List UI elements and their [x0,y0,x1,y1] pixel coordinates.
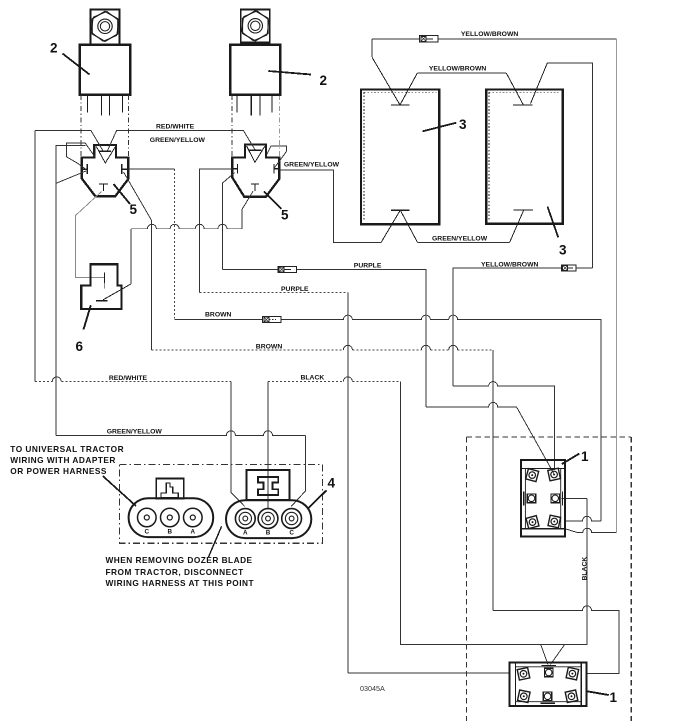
svg-text:4: 4 [328,476,336,491]
svg-text:RED/WHITE: RED/WHITE [109,375,148,382]
svg-text:WIRING WITH ADAPTER: WIRING WITH ADAPTER [10,455,116,465]
blade boundary dash-dot box [467,437,632,721]
svg-text:1: 1 [581,449,589,464]
svg-text:WHEN REMOVING DOZER BLADE: WHEN REMOVING DOZER BLADE [106,555,253,565]
lamp 1 (lower) [510,663,587,706]
dashed disconnect box [120,465,323,544]
connector 4 (tractor side, left) [129,479,214,538]
svg-text:WIRING HARNESS AT THIS POINT: WIRING HARNESS AT THIS POINT [106,578,255,588]
svg-text:B: B [266,530,271,537]
svg-text:GREEN/YELLOW: GREEN/YELLOW [284,162,340,169]
wire GREEN/YELLOW from conn5 right to actuator bottoms [279,170,509,243]
solenoid 2 (right) [230,9,280,115]
svg-text:A: A [243,530,248,537]
svg-text:6: 6 [76,339,84,354]
wire BLACK run to connector 4 and lamps [268,377,587,665]
label 3 (left actuator) [423,117,467,132]
lamp 1 (upper) [521,460,565,537]
inline connector on BROWN [263,317,282,323]
wire to item 6 from conn5 right bottom pin (with bumps) [131,191,253,283]
svg-text:BROWN: BROWN [205,311,232,318]
wire BROWN lower (diagonal from conn5 left to bottom lamp) [124,172,619,674]
connector 4 (blade side, right) [226,470,311,538]
svg-text:B: B [168,529,173,536]
svg-text:2: 2 [320,73,328,88]
svg-text:GREEN/YELLOW: GREEN/YELLOW [432,235,488,242]
actuator 3 (right) [486,63,563,243]
label 5 (right connector) [264,191,289,222]
wire YELLOW/BROWN right side run [453,63,593,470]
inline connector on YELLOW/BROWN top [420,36,439,42]
wire YELLOW/BROWN top run [372,39,616,533]
inline connector on YELLOW/BROWN right [562,265,577,271]
wire YELLOW/BROWN between actuators [417,72,506,74]
svg-text:C: C [145,529,150,536]
svg-text:RED/WHITE: RED/WHITE [156,124,195,131]
label 6 [76,305,91,354]
svg-text:YELLOW/BROWN: YELLOW/BROWN [481,262,538,269]
connector 5 (left) [82,145,128,196]
svg-text:PURPLE: PURPLE [281,286,309,293]
svg-text:YELLOW/BROWN: YELLOW/BROWN [461,31,518,38]
note: disconnect point [106,526,255,588]
wire RED/WHITE top run [35,131,255,382]
label 3 (right actuator) [548,207,568,258]
inline connector on PURPLE [278,266,297,272]
svg-text:BROWN: BROWN [256,344,283,351]
connector 5 (right) [232,145,279,197]
svg-text:2: 2 [50,41,58,56]
svg-text:GREEN/YELLOW: GREEN/YELLOW [150,137,206,144]
label 4 [308,476,336,510]
svg-text:5: 5 [130,202,138,217]
wire PURPLE lower (conn5 right left-pin to bottom lamp left) [200,169,510,673]
dash-dot guide lines under left solenoid [81,95,129,157]
wire GREEN/YELLOW lower run to connector 4 [56,431,306,507]
svg-text:A: A [191,529,196,536]
svg-text:YELLOW/BROWN: YELLOW/BROWN [429,66,486,73]
svg-text:03045A: 03045A [360,684,385,693]
note: to universal tractor wiring [10,444,136,506]
svg-text:BLACK: BLACK [301,374,325,381]
wire BROWN upper (conn5 left right-pin to lamp) [128,169,601,521]
wire conn5 left bottom pin to item 6 top pin [76,192,105,278]
dash-dot guide lines under right solenoid [232,95,279,157]
svg-text:GREEN/YELLOW: GREEN/YELLOW [107,429,163,436]
actuator 3 (left) [361,57,439,242]
svg-text:TO UNIVERSAL TRACTOR: TO UNIVERSAL TRACTOR [10,444,124,454]
wire GREEN/YELLOW at left connector [56,146,86,436]
svg-text:FROM TRACTOR, DISCONNECT: FROM TRACTOR, DISCONNECT [106,567,244,577]
wire PURPLE upper (conn5 right left-pin to upper lamp) [223,173,554,474]
label 1 (lower lamp) [586,690,617,705]
svg-text:PURPLE: PURPLE [354,262,382,269]
svg-text:BLACK: BLACK [581,557,588,581]
connector 5 (left) side flag [67,143,96,170]
svg-text:5: 5 [281,208,289,223]
svg-text:1: 1 [610,690,618,705]
label 2 (right solenoid) [268,71,327,88]
label 1 (upper lamp) [562,449,589,464]
svg-text:3: 3 [559,243,567,258]
wire RED/WHITE lower run to connector 4 [35,377,245,507]
connector 5 (right) side flag [267,146,287,168]
svg-text:3: 3 [459,117,467,132]
svg-text:C: C [289,530,294,537]
label 5 (left connector) [114,184,138,217]
connector 6 [81,264,131,309]
label 2 (left solenoid) [50,41,90,75]
svg-text:OR POWER HARNESS: OR POWER HARNESS [10,466,107,476]
solenoid 2 (left) [80,10,131,116]
